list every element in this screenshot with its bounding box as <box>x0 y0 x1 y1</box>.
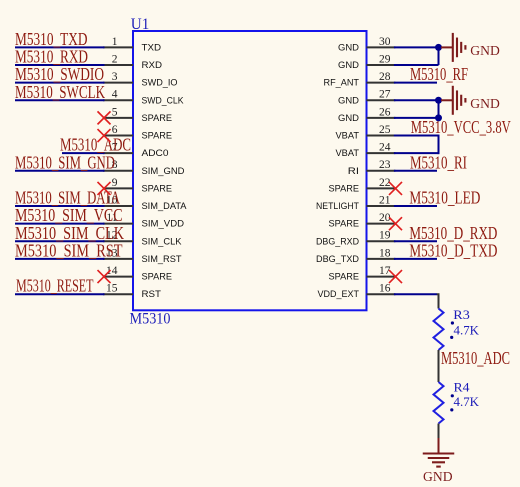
svg-text:RF_ANT: RF_ANT <box>324 78 360 89</box>
wire R3 to R4 (node M5310_ADC) <box>438 350 440 382</box>
svg-text:M5310_VCC_3.8V: M5310_VCC_3.8V <box>411 117 511 137</box>
svg-text:M5310_RF: M5310_RF <box>410 64 468 84</box>
value 4.7K (R3) <box>450 324 479 340</box>
net label M5310_SIM_VCC <box>15 205 123 225</box>
svg-text:M5310_ADC: M5310_ADC <box>441 348 510 368</box>
no-connect X pin 20 <box>389 217 402 230</box>
net label M5310_VCC_3.8V <box>411 117 511 137</box>
wire pin 30 to GND junction <box>394 46 439 48</box>
wire to pin 12 <box>15 240 105 242</box>
pin 3 SWD_IO <box>103 71 178 89</box>
net label M5310_RESET <box>16 276 94 296</box>
svg-text:TXD: TXD <box>142 42 162 53</box>
svg-text:ADC0: ADC0 <box>142 148 169 159</box>
wire from pin 19 <box>394 240 437 242</box>
power GND below R4 <box>423 438 455 485</box>
no-connect X pin 14 <box>98 270 111 283</box>
wire pin 24 up to pin 25 net <box>394 135 439 155</box>
power GND at pins 30/29 <box>441 33 500 62</box>
svg-text:GND: GND <box>470 97 500 112</box>
wire from pin 23 <box>394 170 437 172</box>
resistor R3 <box>434 309 444 351</box>
wire to pin 3 <box>15 82 105 84</box>
svg-text:GND: GND <box>423 470 453 485</box>
comment M5310 <box>130 311 171 328</box>
pin 19 DBG_RXD <box>316 230 395 248</box>
resistor R4 pin bottom <box>438 424 440 439</box>
resistor R3 pin top <box>438 296 440 309</box>
svg-text:26: 26 <box>379 106 391 118</box>
net label M5310_ADC <box>441 348 510 368</box>
designator U1 <box>131 16 150 33</box>
svg-text:VDD_EXT: VDD_EXT <box>318 289 360 300</box>
pin 21 NETLIGHT <box>316 194 395 212</box>
pin 25 VBAT <box>336 124 396 142</box>
svg-text:4.7K: 4.7K <box>454 324 480 338</box>
pin 18 DBG_TXD <box>316 247 395 265</box>
wire pin 16 VDD_EXT to divider <box>394 294 439 297</box>
svg-text:M5310_SIM_RST: M5310_SIM_RST <box>15 240 123 260</box>
svg-text:M5310_LED: M5310_LED <box>409 188 480 208</box>
wire from pin 21 <box>394 205 437 207</box>
wire from pin 25 <box>394 135 437 137</box>
svg-text:VBAT: VBAT <box>336 148 360 159</box>
svg-text:SIM_GND: SIM_GND <box>142 166 185 177</box>
net label M5310_TXD <box>15 29 88 49</box>
pin 26 GND <box>338 106 395 124</box>
net label M5310_D_TXD <box>409 240 497 260</box>
svg-text:29: 29 <box>379 53 391 65</box>
junction at pin 27 / GND <box>435 97 442 104</box>
svg-text:24: 24 <box>379 142 391 154</box>
svg-text:15: 15 <box>106 283 118 295</box>
power GND at pins 27/26 <box>441 86 500 115</box>
designator R4 <box>451 381 471 398</box>
svg-text:16: 16 <box>379 283 391 295</box>
svg-text:SPARE: SPARE <box>142 131 173 142</box>
svg-text:21: 21 <box>379 194 391 206</box>
pin 5 SPARE <box>103 106 172 124</box>
svg-text:GND: GND <box>338 42 359 53</box>
wire pin 25 VBAT <box>394 135 439 137</box>
svg-text:18: 18 <box>379 247 391 259</box>
svg-text:2: 2 <box>112 53 118 65</box>
svg-text:GND: GND <box>338 95 359 106</box>
net label M5310_RXD <box>15 47 88 67</box>
svg-text:28: 28 <box>379 71 391 83</box>
designator R3 <box>451 308 470 325</box>
junction at pin 26 corner <box>435 114 442 121</box>
svg-text:M5310: M5310 <box>130 311 171 328</box>
pin 2 RXD <box>103 53 162 71</box>
svg-text:SIM_DATA: SIM_DATA <box>142 201 188 212</box>
svg-text:NETLIGHT: NETLIGHT <box>316 201 359 212</box>
junction at pin 30 / GND <box>435 44 442 51</box>
wire to pin 10 <box>15 205 105 207</box>
pin 23 RI <box>348 159 396 177</box>
pin 13 SIM_RST <box>103 247 182 265</box>
pin 20 SPARE <box>329 212 396 230</box>
svg-text:DBG_RXD: DBG_RXD <box>316 236 359 247</box>
svg-text:5: 5 <box>112 106 118 118</box>
pin 24 VBAT <box>336 142 396 160</box>
svg-text:DBG_TXD: DBG_TXD <box>316 254 359 265</box>
net label M5310_SIM_DATA <box>15 188 120 208</box>
no-connect X pin 22 <box>389 182 402 195</box>
svg-text:RST: RST <box>142 289 162 300</box>
pin 9 SPARE <box>103 177 172 195</box>
wire to pin 7 <box>62 152 105 154</box>
svg-text:R3: R3 <box>453 308 470 322</box>
svg-text:25: 25 <box>379 124 391 136</box>
pin 27 GND <box>338 89 395 107</box>
svg-text:RI: RI <box>348 166 359 177</box>
svg-text:SPARE: SPARE <box>329 183 360 194</box>
svg-text:27: 27 <box>379 89 391 101</box>
no-connect X pin 6 <box>98 129 111 142</box>
wire to pin 2 <box>15 64 105 66</box>
pin 30 GND <box>338 36 395 54</box>
wire pin 27 to GND junction <box>394 99 439 101</box>
resistor R4 <box>434 382 444 424</box>
wire from pin 18 <box>394 258 437 260</box>
svg-text:SIM_VDD: SIM_VDD <box>142 219 185 230</box>
no-connect X pin 5 <box>98 111 111 124</box>
pin 29 GND <box>338 53 395 71</box>
pin 17 SPARE <box>329 265 396 283</box>
wire to pin 1 <box>15 46 105 48</box>
pin 8 SIM_GND <box>103 159 185 177</box>
net label M5310_SIM_GND <box>15 152 115 172</box>
IC U1 body outline <box>133 31 367 310</box>
svg-text:23: 23 <box>379 159 391 171</box>
svg-text:SPARE: SPARE <box>142 272 173 283</box>
wire to pin 4 <box>15 99 105 101</box>
wire to pin 11 <box>15 223 105 225</box>
pin 22 SPARE <box>329 177 396 195</box>
pin 11 SIM_VDD <box>103 212 184 230</box>
svg-text:4.7K: 4.7K <box>454 395 480 409</box>
pin 1 TXD <box>103 36 161 54</box>
svg-text:4: 4 <box>112 89 118 101</box>
net label M5310_SIM_RST <box>15 240 123 260</box>
wire pin 29 up to pin 30 net <box>394 47 439 65</box>
value 4.7K (R4) <box>450 395 479 412</box>
wire to pin 15 <box>15 293 105 295</box>
pin 10 SIM_DATA <box>103 194 187 212</box>
svg-text:SPARE: SPARE <box>329 219 360 230</box>
svg-text:GND: GND <box>338 113 359 124</box>
pin 12 SIM_CLK <box>103 230 182 248</box>
wire to pin 13 <box>15 258 105 260</box>
pin 14 SPARE <box>103 265 172 283</box>
net label M5310_SIM_CLK <box>15 223 124 243</box>
net label M5310_SWDIO <box>15 64 104 84</box>
net label M5310_ADC <box>60 135 131 155</box>
svg-text:SIM_RST: SIM_RST <box>142 254 182 265</box>
pin 4 SWD_CLK <box>103 89 184 107</box>
svg-text:30: 30 <box>379 36 391 48</box>
svg-text:M5310_RI: M5310_RI <box>410 152 467 172</box>
svg-text:19: 19 <box>379 230 391 242</box>
wire pin 26 up to pin 27 net <box>394 100 439 118</box>
svg-text:SPARE: SPARE <box>329 272 360 283</box>
svg-text:VBAT: VBAT <box>336 131 360 142</box>
net label M5310_RF <box>410 64 468 84</box>
svg-text:RXD: RXD <box>142 60 163 71</box>
svg-text:SPARE: SPARE <box>142 183 173 194</box>
svg-text:R4: R4 <box>454 381 471 395</box>
net label M5310_D_RXD <box>409 223 497 243</box>
svg-text:SWD_IO: SWD_IO <box>142 78 178 89</box>
svg-text:14: 14 <box>106 265 118 277</box>
svg-text:3: 3 <box>112 71 118 83</box>
svg-text:GND: GND <box>338 60 359 71</box>
pin 6 SPARE <box>103 124 172 142</box>
svg-text:M5310_D_TXD: M5310_D_TXD <box>409 240 497 260</box>
svg-text:GND: GND <box>470 44 500 59</box>
svg-text:SWD_CLK: SWD_CLK <box>142 95 185 106</box>
pin 28 RF_ANT <box>324 71 396 89</box>
no-connect X pin 17 <box>389 270 402 283</box>
svg-text:U1: U1 <box>131 16 150 33</box>
no-connect X pin 9 <box>98 182 111 195</box>
wire from pin 28 <box>394 82 437 84</box>
svg-text:M5310_RESET: M5310_RESET <box>16 276 94 296</box>
svg-text:M5310_SWCLK: M5310_SWCLK <box>15 82 105 102</box>
svg-text:1: 1 <box>112 36 118 48</box>
svg-text:SIM_CLK: SIM_CLK <box>142 236 183 247</box>
net label M5310_RI <box>410 152 467 172</box>
net label M5310_SWCLK <box>15 82 105 102</box>
svg-text:SPARE: SPARE <box>142 113 173 124</box>
pin 16 VDD_EXT <box>318 283 396 301</box>
net label M5310_LED <box>409 188 480 208</box>
pin 15 RST <box>103 283 161 301</box>
wire to pin 8 <box>15 170 105 172</box>
pin 7 ADC0 <box>103 142 169 160</box>
svg-text:M5310_SIM_GND: M5310_SIM_GND <box>15 152 115 172</box>
